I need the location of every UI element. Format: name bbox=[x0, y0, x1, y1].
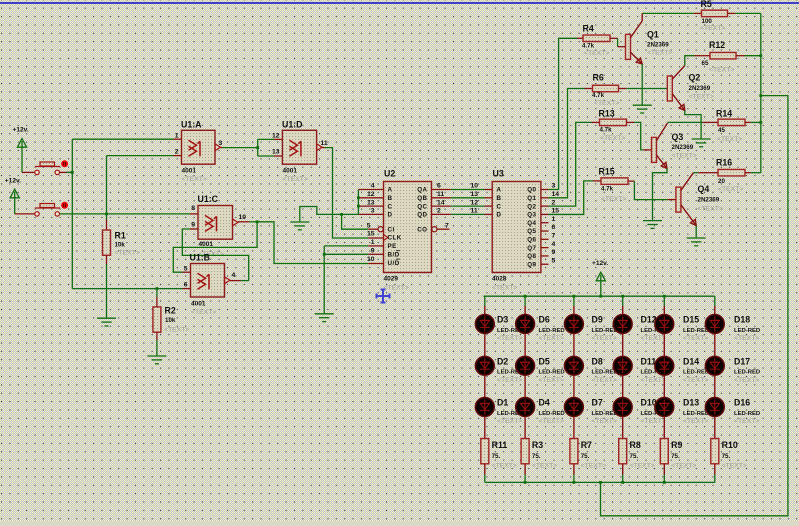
svg-text:15: 15 bbox=[367, 231, 375, 238]
wire Q1 collector to R5 bbox=[642, 12, 694, 14]
svg-text:+12v.: +12v. bbox=[13, 127, 29, 134]
op-amp U1:C (NOR gate) bbox=[198, 206, 233, 240]
svg-text:R3: R3 bbox=[532, 440, 543, 450]
svg-text:2: 2 bbox=[437, 208, 441, 215]
wire R11 to bottom rail bbox=[484, 475, 486, 483]
svg-text:C: C bbox=[388, 203, 393, 210]
pin Q4 collector bbox=[681, 173, 694, 191]
svg-text:5: 5 bbox=[552, 257, 556, 264]
pin R4 right bbox=[610, 37, 618, 39]
pin between D17 and D16 bbox=[714, 375, 716, 397]
svg-text:2N2369: 2N2369 bbox=[647, 42, 669, 49]
svg-text:<TEXT>: <TEXT> bbox=[584, 50, 609, 57]
diode D6 (LED-RED) bbox=[516, 315, 535, 334]
svg-text:B: B bbox=[388, 195, 393, 202]
junction bracket B bbox=[357, 196, 360, 199]
origin marker bbox=[377, 290, 390, 303]
wire R3 to bottom rail bbox=[524, 475, 526, 483]
pin U3 right Q7 bbox=[541, 247, 549, 249]
resistor R1 bbox=[103, 230, 111, 255]
transistor Q3 bbox=[652, 137, 657, 162]
svg-text:QB: QB bbox=[417, 195, 427, 202]
svg-text:<TEXT>: <TEXT> bbox=[539, 335, 564, 342]
svg-text:LED-RED: LED-RED bbox=[539, 328, 565, 334]
diode D17 (LED-RED) bbox=[705, 356, 724, 375]
svg-text:9: 9 bbox=[371, 248, 375, 255]
wire to U1:A pin1 bbox=[72, 138, 173, 140]
junction bottom col5 bbox=[663, 481, 666, 484]
wire R13 to Q3 base bbox=[634, 122, 644, 149]
svg-text:A: A bbox=[497, 187, 502, 194]
pin R16 left joint bbox=[698, 172, 710, 174]
svg-text:10k: 10k bbox=[165, 317, 176, 324]
svg-text:6: 6 bbox=[437, 183, 441, 190]
resistor R8 bbox=[619, 439, 627, 464]
wire R8 to bottom rail bbox=[622, 475, 624, 483]
wire Q4 emitter to ground bbox=[695, 226, 697, 238]
wire R1 to ground bbox=[106, 264, 108, 318]
svg-text:Q6: Q6 bbox=[527, 237, 536, 244]
wire arrow2 to SW2 bbox=[15, 213, 35, 215]
svg-text:Q2: Q2 bbox=[527, 203, 536, 210]
svg-text:U/D: U/D bbox=[388, 260, 400, 267]
svg-text:75.: 75. bbox=[492, 453, 501, 460]
pin D13 to R9 bbox=[663, 417, 665, 439]
wire R14 to bus bbox=[751, 121, 761, 123]
pin U1:A.3 stub bbox=[221, 147, 223, 149]
svg-text:D1: D1 bbox=[497, 398, 508, 408]
pin R12 left bbox=[695, 55, 703, 57]
svg-text:<TEXT>: <TEXT> bbox=[191, 309, 216, 316]
svg-text:10: 10 bbox=[239, 214, 247, 221]
svg-text:3: 3 bbox=[371, 208, 375, 215]
pin D18 anode bbox=[714, 306, 716, 314]
diode D15 (LED-RED) bbox=[655, 315, 674, 334]
pin U1:D.12 stub bbox=[274, 138, 282, 140]
pin U2 right 6 bbox=[432, 189, 451, 191]
diode D9 (LED-RED) bbox=[565, 315, 584, 334]
pin U2.B/D stub bbox=[368, 253, 383, 255]
svg-text:R11: R11 bbox=[492, 440, 508, 450]
pin U3 right Q9 bbox=[541, 263, 549, 265]
pin U1:B.4 stub bbox=[230, 280, 241, 282]
svg-text:<TEXT>: <TEXT> bbox=[647, 50, 672, 57]
wire U3.Q3 to R15 bbox=[549, 181, 594, 215]
svg-text:Q3: Q3 bbox=[527, 212, 536, 219]
wire R10 to bottom rail bbox=[714, 475, 716, 483]
svg-text:CLK: CLK bbox=[388, 235, 402, 242]
ground U2 PE/BD bbox=[315, 314, 334, 322]
wire U2 PE bbox=[324, 245, 368, 247]
svg-text:Q9: Q9 bbox=[527, 261, 536, 268]
resistor R5 bbox=[702, 10, 728, 17]
svg-text:CO: CO bbox=[417, 226, 427, 233]
svg-text:75.: 75. bbox=[722, 453, 731, 460]
svg-text:+12v.: +12v. bbox=[5, 178, 21, 185]
svg-text:75.: 75. bbox=[671, 453, 680, 460]
svg-text:75.: 75. bbox=[532, 453, 541, 460]
svg-text:R12: R12 bbox=[709, 40, 725, 50]
junction rail col2 bbox=[524, 295, 527, 298]
svg-text:4: 4 bbox=[552, 241, 556, 248]
svg-text:LED-RED: LED-RED bbox=[683, 370, 709, 376]
junction bus branch bbox=[759, 94, 762, 97]
pin U2 left 13 bbox=[358, 205, 383, 207]
svg-text:<TEXT>: <TEXT> bbox=[497, 418, 522, 425]
pin R13 left bbox=[592, 121, 600, 123]
svg-text:65: 65 bbox=[702, 60, 709, 67]
svg-text:<TEXT>: <TEXT> bbox=[384, 285, 409, 292]
pin U3 right Q6 bbox=[541, 238, 549, 240]
wire R15 to Q4 base bbox=[634, 181, 667, 200]
pin Q4 base bbox=[668, 199, 676, 201]
junction bottom col4 bbox=[621, 481, 624, 484]
svg-text:3: 3 bbox=[552, 183, 556, 190]
transistor Q2 bbox=[667, 76, 672, 101]
svg-text:U1:B: U1:B bbox=[190, 253, 211, 263]
wire CI to ground net bbox=[342, 214, 369, 229]
diode D2 (LED-RED) bbox=[475, 356, 494, 375]
svg-text:4029: 4029 bbox=[384, 276, 399, 283]
svg-text:R5: R5 bbox=[701, 0, 712, 9]
pin between D18 and D17 bbox=[714, 334, 716, 357]
resistor R10 bbox=[711, 439, 719, 464]
wire R4 to Q1 base bbox=[617, 38, 619, 46]
svg-text:2: 2 bbox=[175, 149, 179, 156]
pin U2 right 14 bbox=[432, 205, 451, 207]
diode D5 (LED-RED) bbox=[516, 356, 535, 375]
wire U3.Q2 to R13 bbox=[549, 122, 592, 206]
IC U2 body bbox=[384, 182, 432, 273]
svg-text:Q3: Q3 bbox=[672, 132, 684, 142]
svg-text:LED-RED: LED-RED bbox=[734, 411, 760, 417]
wire U1:A out to U1:D bbox=[222, 147, 257, 149]
pin R2 bottom bbox=[156, 332, 158, 340]
pin U3 right Q8 bbox=[541, 255, 549, 257]
svg-text:2N2369: 2N2369 bbox=[672, 144, 694, 151]
pin R12 left2 bbox=[702, 55, 710, 57]
pin R6 right bbox=[619, 88, 627, 90]
wire matrix bottom rail bbox=[485, 481, 715, 483]
svg-text:D18: D18 bbox=[734, 315, 750, 325]
pin R5 right bbox=[728, 12, 736, 14]
wire col4 top bbox=[622, 296, 624, 306]
svg-text:<TEXT>: <TEXT> bbox=[700, 25, 725, 32]
pin D10 to R8 bbox=[622, 417, 624, 439]
pin R15 right bbox=[628, 180, 634, 182]
svg-text:Q2: Q2 bbox=[689, 73, 701, 83]
junction rail col5 bbox=[663, 295, 666, 298]
svg-text:14: 14 bbox=[552, 191, 560, 198]
overbar U2 B/D bbox=[396, 250, 400, 252]
pin D12 anode bbox=[622, 306, 624, 314]
pin Q1 emitter bbox=[631, 52, 643, 64]
svg-text:R16: R16 bbox=[716, 158, 732, 168]
pin U2.CI bubble bbox=[378, 227, 383, 232]
svg-text:LED-RED: LED-RED bbox=[734, 370, 760, 376]
ground Q3 emitter bbox=[643, 221, 662, 229]
resistor R12 bbox=[710, 52, 736, 59]
svg-text:<TEXT>: <TEXT> bbox=[734, 335, 759, 342]
pin U2 left 12 bbox=[358, 197, 383, 199]
pin U1:A.2 stub bbox=[174, 155, 182, 157]
wire U1:D out to U2 CLK bbox=[325, 148, 369, 238]
wire R7 to bottom rail bbox=[573, 475, 575, 483]
pin Q4 emitter bbox=[681, 205, 696, 226]
wire R5 to bus bbox=[735, 12, 761, 14]
svg-text:1: 1 bbox=[175, 132, 179, 139]
svg-text:3: 3 bbox=[219, 140, 223, 147]
pin U2.CLK stub bbox=[368, 237, 383, 239]
svg-text:1: 1 bbox=[552, 216, 556, 223]
diode D16 (LED-RED) bbox=[705, 398, 724, 417]
svg-text:8: 8 bbox=[191, 205, 195, 212]
wire bus to matrix common bbox=[601, 96, 788, 516]
pin R16 right bbox=[745, 172, 751, 174]
pin R15 left bbox=[593, 180, 601, 182]
svg-text:U1:C: U1:C bbox=[198, 194, 219, 204]
overbar U2 U/D bbox=[396, 258, 400, 260]
pin D6 anode bbox=[524, 306, 526, 314]
svg-text:6: 6 bbox=[184, 282, 188, 289]
pin R5 left bbox=[694, 12, 702, 14]
svg-text:Q7: Q7 bbox=[527, 245, 536, 252]
wire arrow1 to SW1 bbox=[22, 171, 35, 173]
pin between D14 and D13 bbox=[663, 375, 665, 397]
svg-text:A: A bbox=[388, 187, 393, 194]
pin Q2 collector bbox=[672, 66, 685, 80]
pin U1:A.1 stub bbox=[174, 138, 182, 140]
ground R2 bbox=[147, 356, 166, 364]
svg-text:D2: D2 bbox=[497, 356, 508, 366]
diode D1 (LED-RED) bbox=[475, 398, 494, 417]
pin D3 anode bbox=[484, 306, 486, 314]
resistor R4 bbox=[583, 35, 610, 42]
ground R1 bbox=[97, 318, 116, 326]
pin D4 to R3 bbox=[524, 417, 526, 439]
svg-text:11: 11 bbox=[437, 191, 444, 198]
wire U2 QA-QD to U3 bbox=[451, 213, 485, 215]
svg-text:4001: 4001 bbox=[182, 168, 197, 175]
pin Q2 emitter bbox=[672, 94, 685, 111]
pin Q3 base bbox=[644, 149, 652, 151]
svg-text:10: 10 bbox=[367, 256, 375, 263]
svg-text:D14: D14 bbox=[683, 356, 699, 366]
svg-text:R1: R1 bbox=[115, 231, 126, 241]
svg-text:<TEXT>: <TEXT> bbox=[641, 335, 666, 342]
pin U3 right Q2 bbox=[541, 205, 549, 207]
IC U3 body bbox=[492, 182, 541, 273]
svg-text:<TEXT>: <TEXT> bbox=[698, 206, 723, 213]
pin U3 left 10 bbox=[485, 189, 493, 191]
pin U2 right 11 bbox=[432, 197, 451, 199]
wire U1:B out bbox=[241, 280, 249, 282]
transistor Q4 bbox=[676, 187, 681, 212]
svg-text:4.7k: 4.7k bbox=[592, 92, 605, 99]
diode D13 (LED-RED) bbox=[655, 398, 674, 417]
svg-text:<TEXT>: <TEXT> bbox=[641, 418, 666, 425]
svg-text:Q1: Q1 bbox=[527, 195, 536, 202]
svg-text:QD: QD bbox=[417, 212, 427, 219]
op-amp U1:A (NOR gate) bbox=[182, 130, 216, 164]
wire U1:B out to U1:C pin9 bbox=[182, 229, 248, 281]
svg-text:R15: R15 bbox=[599, 167, 615, 177]
svg-text:C: C bbox=[497, 203, 502, 210]
svg-text:45: 45 bbox=[718, 127, 725, 134]
pin D16 to R10 bbox=[714, 417, 716, 439]
svg-text:<TEXT>: <TEXT> bbox=[497, 377, 522, 384]
svg-text:B: B bbox=[497, 195, 502, 202]
power symbol +12v (1) bbox=[17, 139, 26, 173]
pin R10 bottom bbox=[714, 464, 716, 475]
svg-text:LED-RED: LED-RED bbox=[734, 328, 760, 334]
junction bracket C bbox=[357, 205, 360, 208]
svg-text:13: 13 bbox=[471, 191, 479, 198]
svg-text:6: 6 bbox=[552, 224, 556, 231]
svg-text:<TEXT>: <TEXT> bbox=[683, 377, 708, 384]
pin between D6 and D5 bbox=[524, 334, 526, 357]
junction +12v rail bbox=[599, 295, 602, 298]
svg-text:Q8: Q8 bbox=[527, 253, 536, 260]
svg-text:R7: R7 bbox=[581, 440, 592, 450]
pin R14 left joint bbox=[703, 121, 711, 123]
svg-text:<TEXT>: <TEXT> bbox=[592, 418, 617, 425]
junction rail col4 bbox=[621, 295, 624, 298]
pin U2.U/D stub bbox=[368, 263, 383, 265]
svg-text:D6: D6 bbox=[539, 315, 550, 325]
resistor R3 bbox=[521, 439, 529, 464]
junction bottom col3 bbox=[573, 481, 576, 484]
svg-text:75.: 75. bbox=[581, 453, 590, 460]
svg-text:<TEXT>: <TEXT> bbox=[683, 418, 708, 425]
pin U3 right Q3 bbox=[541, 213, 549, 215]
svg-text:U2: U2 bbox=[384, 169, 395, 179]
svg-text:D9: D9 bbox=[592, 315, 603, 325]
pin R14 right bbox=[745, 121, 751, 123]
svg-text:<TEXT>: <TEXT> bbox=[734, 418, 759, 425]
svg-text:5: 5 bbox=[367, 222, 371, 229]
svg-text:D5: D5 bbox=[539, 356, 550, 366]
svg-text:<TEXT>: <TEXT> bbox=[539, 377, 564, 384]
wire ABCD to ground bbox=[300, 207, 359, 222]
pin Q3 emitter bbox=[657, 155, 668, 168]
pin U2.CLK mark bbox=[384, 235, 389, 241]
wire R2 to ground bbox=[156, 340, 158, 355]
pin U1:C.8 stub bbox=[190, 213, 198, 215]
wire U1:C out bbox=[249, 221, 257, 223]
svg-text:7: 7 bbox=[552, 233, 556, 240]
ground Q2 emitter bbox=[692, 139, 711, 147]
junction bottom col2 bbox=[524, 481, 527, 484]
svg-text:R10: R10 bbox=[722, 440, 738, 450]
svg-text:U3: U3 bbox=[493, 169, 504, 179]
pin Q3 collector bbox=[657, 123, 668, 141]
wire U2 QA-QD to U3 bbox=[451, 205, 485, 207]
svg-text:7: 7 bbox=[445, 222, 449, 229]
wire Q1 emitter to ground bbox=[641, 64, 643, 105]
pin U1:C.9 stub bbox=[190, 228, 198, 230]
svg-text:Q5: Q5 bbox=[527, 228, 536, 235]
op-amp U1:D (NOR gate) bbox=[282, 130, 316, 164]
wire to U1:D pin12 bbox=[258, 138, 274, 140]
wire col5 top bbox=[663, 296, 665, 306]
pin U3 left 12 bbox=[485, 205, 493, 207]
junction R2 tap bbox=[156, 287, 159, 290]
svg-text:<TEXT>: <TEXT> bbox=[539, 418, 564, 425]
pin R9 bottom bbox=[663, 464, 665, 475]
pin R7 bottom bbox=[573, 464, 575, 475]
junction R1/SW2 bbox=[105, 213, 108, 216]
resistor R11 bbox=[481, 439, 489, 464]
pin U1:B.5 stub bbox=[183, 271, 191, 273]
svg-text:R13: R13 bbox=[599, 109, 615, 119]
op-amp U1:B (NOR gate) bbox=[191, 264, 225, 298]
pin R8 bottom bbox=[622, 464, 624, 475]
svg-text:4: 4 bbox=[371, 183, 375, 190]
svg-text:QC: QC bbox=[417, 203, 427, 210]
wire U2 QA-QD to U3 bbox=[451, 189, 485, 191]
push button SW2 bbox=[35, 204, 60, 217]
svg-text:D: D bbox=[497, 212, 502, 219]
ground U2 inputs bbox=[290, 222, 309, 230]
svg-text:LED-RED: LED-RED bbox=[683, 328, 709, 334]
pin U1:B.6 stub bbox=[183, 288, 191, 290]
wire U2 B/D bbox=[324, 253, 368, 255]
svg-text:4.7k: 4.7k bbox=[601, 186, 614, 193]
wire R9 to bottom rail bbox=[663, 475, 665, 483]
wire R12 to bus bbox=[745, 55, 761, 57]
pin R11 bottom bbox=[484, 464, 486, 475]
svg-text:Q0: Q0 bbox=[527, 187, 536, 194]
wire Q3 collector to R14 bbox=[668, 121, 703, 123]
pin between D3 and D2 bbox=[484, 334, 486, 357]
wire col2 top bbox=[524, 296, 526, 306]
svg-text:D7: D7 bbox=[592, 398, 603, 408]
svg-text:<TEXT>: <TEXT> bbox=[592, 377, 617, 384]
svg-text:<TEXT>: <TEXT> bbox=[164, 327, 189, 334]
svg-text:R6: R6 bbox=[593, 73, 604, 83]
pin Q1 base bbox=[618, 46, 626, 48]
wire U2 QA-QD to U3 bbox=[451, 197, 485, 199]
resistor R6 bbox=[593, 85, 619, 92]
svg-text:D15: D15 bbox=[683, 315, 699, 325]
svg-text:R2: R2 bbox=[165, 306, 176, 316]
svg-text:2: 2 bbox=[552, 199, 556, 206]
svg-text:1: 1 bbox=[371, 239, 375, 246]
wire U1:C out to U1:B pin5 bbox=[173, 222, 257, 272]
svg-text:<TEXT>: <TEXT> bbox=[497, 335, 522, 342]
pin U1:C.10 stub bbox=[238, 221, 249, 223]
pin R4 left bbox=[577, 37, 583, 39]
svg-text:D4: D4 bbox=[539, 398, 550, 408]
pin U2 left 4 bbox=[358, 189, 383, 191]
pin D7 to R7 bbox=[573, 417, 575, 439]
pin R13 right bbox=[627, 121, 635, 123]
svg-text:75.: 75. bbox=[630, 453, 639, 460]
pin D15 anode bbox=[663, 306, 665, 314]
resistor R7 bbox=[570, 439, 578, 464]
resistor R13 bbox=[600, 119, 627, 126]
svg-text:<TEXT>: <TEXT> bbox=[492, 463, 517, 470]
pin R14 left bbox=[711, 121, 718, 123]
svg-text:LED-RED: LED-RED bbox=[683, 411, 709, 417]
transistor Q1 bbox=[626, 34, 631, 59]
pin D1 to R11 bbox=[484, 417, 486, 439]
wire Q2 emitter to ground bbox=[685, 111, 701, 139]
svg-text:+12v.: +12v. bbox=[592, 260, 608, 267]
svg-text:<TEXT>: <TEXT> bbox=[709, 67, 734, 74]
svg-text:R14: R14 bbox=[716, 109, 732, 119]
